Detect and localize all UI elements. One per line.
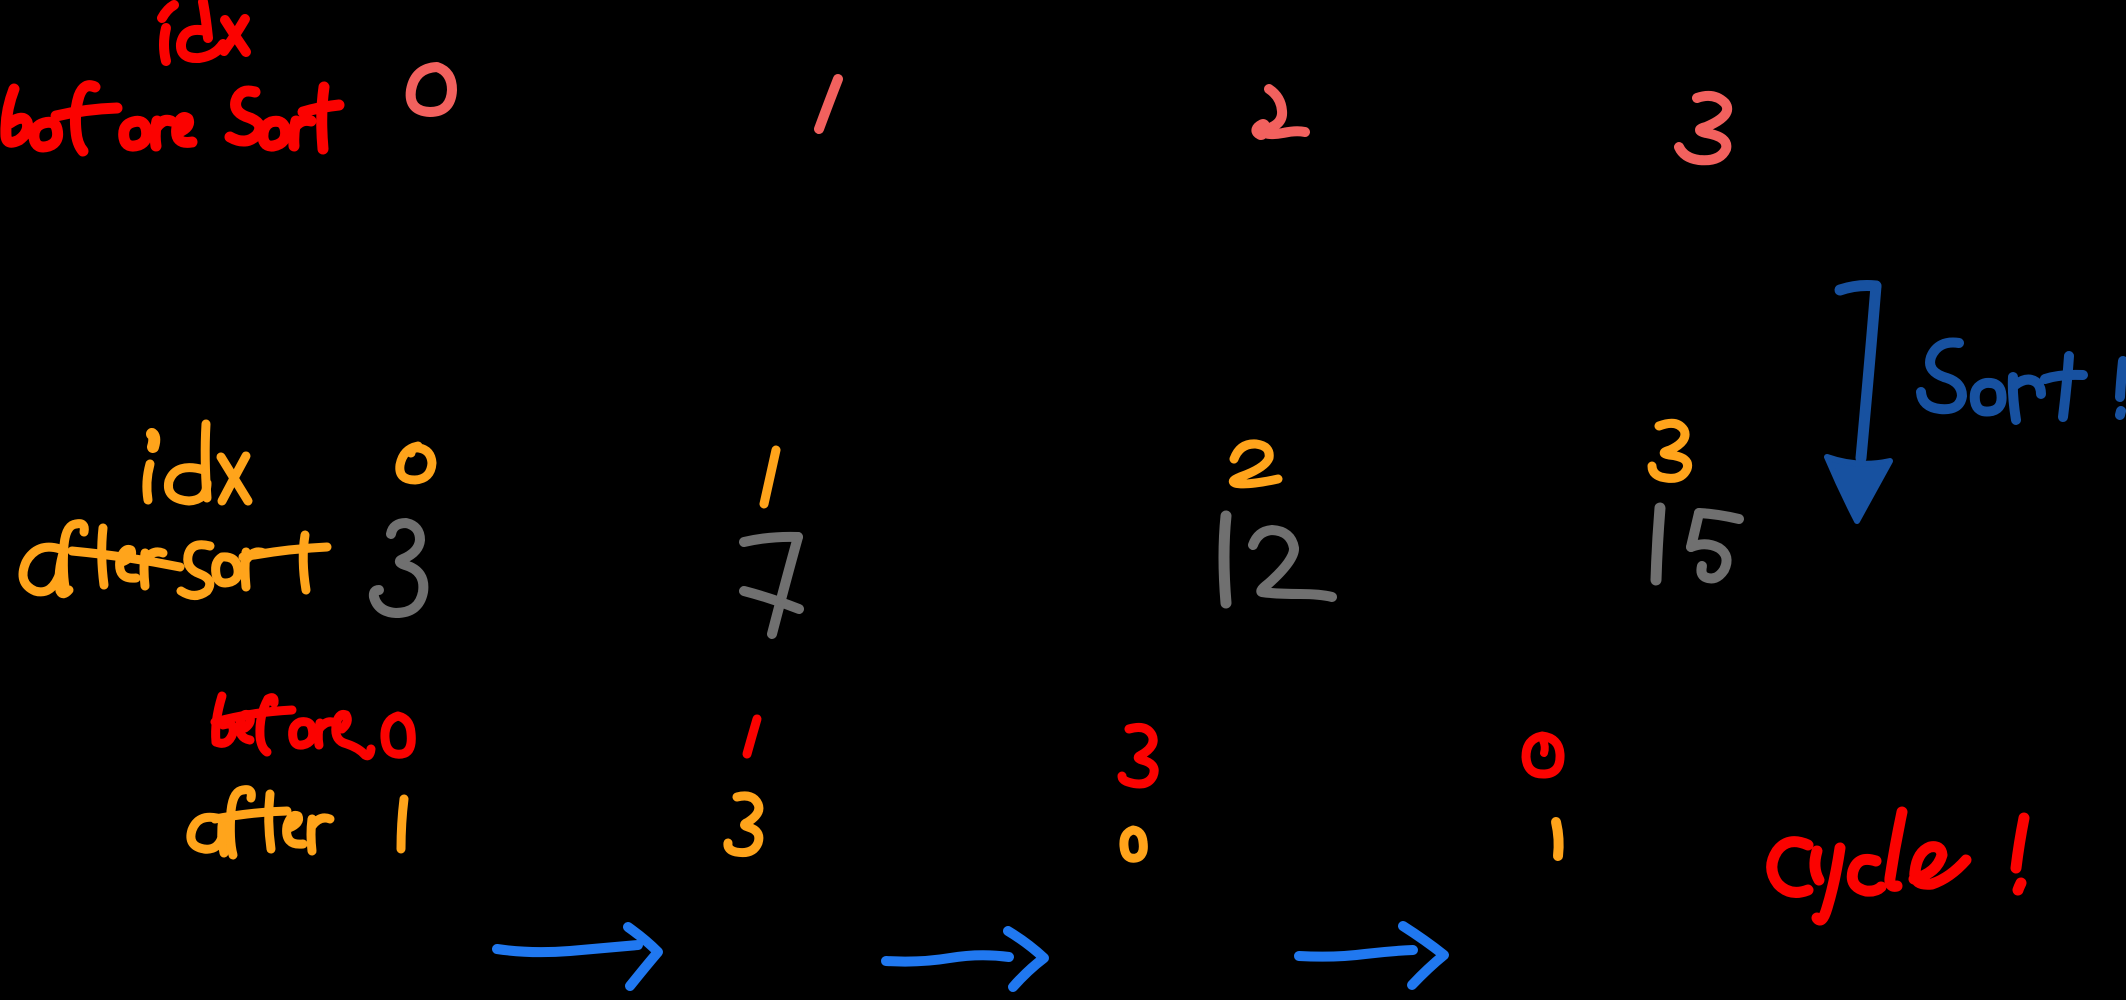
label Sort (red top) bbox=[230, 87, 339, 149]
GROUP: bright blue bottom arrows bbox=[497, 926, 1444, 987]
digit 3 (gray) bbox=[374, 523, 424, 613]
digit 2 (salmon) bbox=[1260, 89, 1305, 134]
GROUP: dark blue sort arrow bbox=[1827, 286, 2123, 522]
digit 1 (salmon) bbox=[819, 79, 838, 129]
label Cycle! (red) bbox=[1772, 812, 2024, 920]
GROUP: orange digits mid row bbox=[400, 423, 1688, 504]
digit 7 (gray) bbox=[744, 537, 798, 542]
arrow right 3 bbox=[1299, 950, 1413, 957]
label idx (red) bbox=[162, 5, 174, 18]
digit 3 (red lower col3) bbox=[1122, 727, 1154, 784]
GROUP: orange mid labels bbox=[23, 424, 327, 596]
GROUP: salmon digits row1 bbox=[411, 67, 1728, 160]
GROUP: gray values bbox=[374, 508, 1739, 634]
digit 1 (orange lower col4) bbox=[1556, 822, 1559, 856]
digit 0 (orange lower col3) bbox=[1124, 830, 1143, 858]
digit 0 (salmon) bbox=[411, 67, 452, 112]
digit 3 (orange lower col2) bbox=[728, 796, 759, 853]
arrow head bbox=[1827, 457, 1890, 521]
number 15 (gray) bbox=[1656, 508, 1660, 580]
digit 0 (red lower col4) bbox=[1526, 736, 1560, 774]
label idx (orange) bbox=[152, 434, 154, 447]
digit 1 (red lower col2) bbox=[747, 719, 757, 754]
digit 3 (salmon) bbox=[1679, 96, 1727, 160]
digit 3 (orange mid) bbox=[1652, 423, 1688, 478]
GROUP: red top labels bbox=[6, 2, 339, 151]
digit 2 (orange mid) bbox=[1233, 444, 1278, 484]
label Sort! (blue) bbox=[1921, 343, 2123, 420]
label after (orange mid) bbox=[23, 547, 60, 592]
label before (red lower) bbox=[215, 696, 371, 756]
arrow right 1 bbox=[497, 945, 638, 952]
number 12 (gray) bbox=[1224, 516, 1226, 603]
digit 0 (red lower col1) bbox=[385, 716, 411, 754]
label after (orange lower) bbox=[191, 790, 330, 855]
label sort (orange mid) bbox=[181, 545, 210, 596]
digit 1 (orange lower col1) bbox=[401, 799, 404, 849]
arrow right 2 bbox=[886, 955, 1009, 961]
GROUP: lower orange after row bbox=[191, 790, 1559, 859]
digit 1 (orange mid) bbox=[764, 450, 776, 504]
digit 0 (orange mid) bbox=[400, 446, 432, 480]
label before (red top) bbox=[6, 86, 192, 151]
arrow down shaft bbox=[1840, 286, 1876, 291]
GROUP: lower red before row bbox=[215, 696, 2024, 920]
